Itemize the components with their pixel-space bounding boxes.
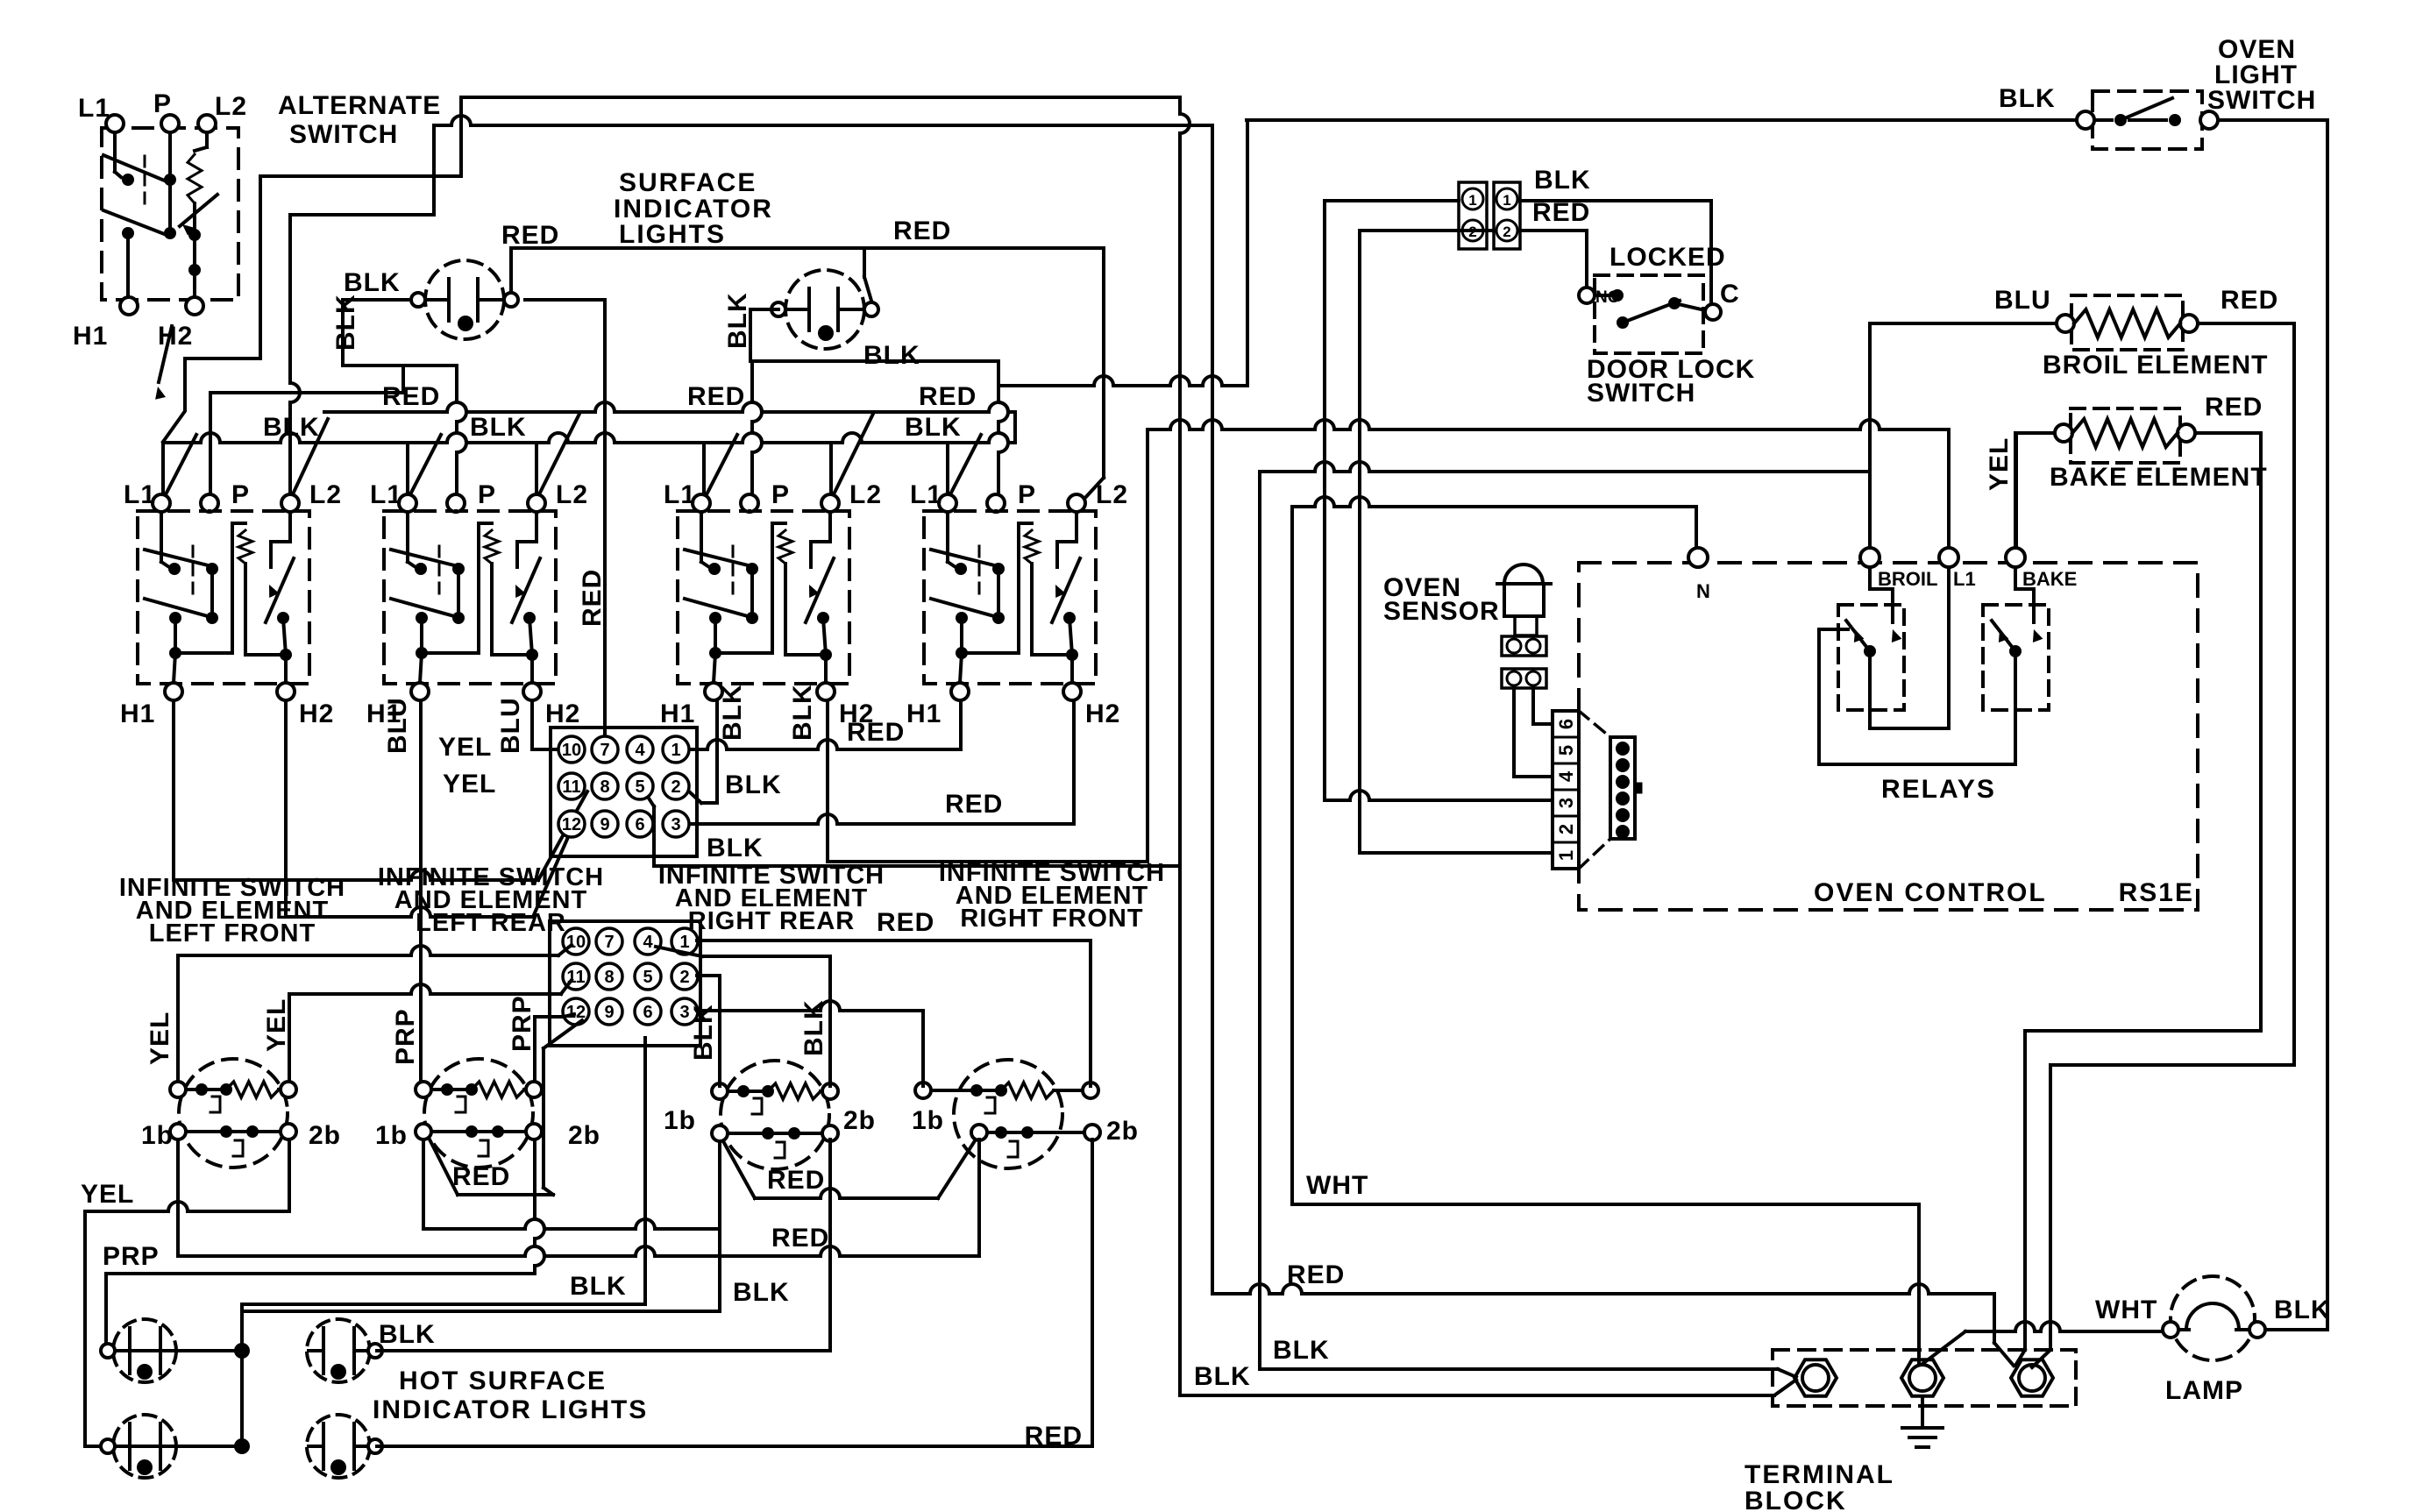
svg-text:OVEN CONTROL: OVEN CONTROL: [1814, 878, 2047, 907]
svg-text:RED: RED: [945, 790, 1003, 819]
svg-text:SWITCH: SWITCH: [1587, 379, 1695, 408]
svg-text:L2: L2: [849, 480, 882, 509]
svg-text:1: 1: [1468, 192, 1476, 209]
svg-text:L2: L2: [556, 480, 588, 509]
svg-text:2: 2: [1555, 824, 1577, 834]
svg-text:LAMP: LAMP: [2165, 1376, 2243, 1405]
svg-text:L1: L1: [664, 480, 696, 509]
svg-text:H2: H2: [299, 699, 334, 728]
svg-text:WHT: WHT: [2095, 1295, 2157, 1324]
svg-text:RIGHT FRONT: RIGHT FRONT: [960, 905, 1143, 933]
svg-text:3: 3: [671, 815, 680, 834]
svg-text:P: P: [153, 89, 172, 118]
svg-text:BLK: BLK: [1999, 84, 2056, 113]
svg-text:2b: 2b: [843, 1106, 876, 1135]
svg-text:PRP: PRP: [391, 1008, 420, 1065]
svg-text:12: 12: [562, 815, 581, 834]
svg-text:BLU: BLU: [1994, 286, 2051, 315]
svg-text:L1: L1: [1953, 568, 1976, 590]
svg-text:2b: 2b: [1106, 1117, 1139, 1146]
svg-text:YEL: YEL: [146, 1012, 174, 1065]
svg-text:HOT SURFACE: HOT SURFACE: [399, 1366, 607, 1395]
svg-text:BROIL: BROIL: [1878, 568, 1937, 590]
svg-text:RED: RED: [501, 221, 559, 250]
svg-text:BAKE ELEMENT: BAKE ELEMENT: [2050, 463, 2268, 492]
svg-text:9: 9: [600, 815, 609, 834]
svg-text:1b: 1b: [912, 1106, 944, 1135]
svg-text:5: 5: [643, 968, 652, 987]
svg-text:LIGHTS: LIGHTS: [619, 220, 726, 249]
svg-text:11: 11: [562, 777, 580, 797]
svg-text:RED: RED: [687, 382, 745, 411]
svg-text:RED: RED: [919, 382, 977, 411]
svg-text:5: 5: [1555, 745, 1577, 756]
svg-text:BAKE: BAKE: [2022, 568, 2077, 590]
svg-text:LEFT REAR: LEFT REAR: [416, 909, 566, 937]
svg-text:YEL: YEL: [443, 770, 496, 799]
svg-text:4: 4: [643, 933, 653, 952]
svg-text:3: 3: [1555, 798, 1577, 808]
svg-text:ALTERNATE: ALTERNATE: [278, 91, 441, 120]
svg-text:1: 1: [679, 933, 689, 952]
svg-text:RELAYS: RELAYS: [1881, 775, 1996, 804]
svg-text:TERMINAL: TERMINAL: [1744, 1460, 1894, 1489]
svg-text:PRP: PRP: [508, 995, 536, 1052]
svg-text:BLK: BLK: [331, 294, 360, 351]
svg-text:BLK: BLK: [263, 413, 320, 442]
svg-text:H1: H1: [906, 699, 942, 728]
svg-text:L2: L2: [309, 480, 342, 509]
svg-text:1b: 1b: [375, 1121, 408, 1150]
svg-text:6: 6: [643, 1003, 652, 1022]
svg-text:RED: RED: [1287, 1260, 1345, 1289]
svg-text:BLK: BLK: [718, 684, 747, 741]
svg-text:BLK: BLK: [863, 341, 920, 370]
svg-text:7: 7: [600, 741, 609, 760]
svg-text:4: 4: [1555, 770, 1577, 782]
svg-text:LEFT FRONT: LEFT FRONT: [149, 919, 316, 948]
svg-text:WHT: WHT: [1306, 1171, 1368, 1200]
svg-text:H1: H1: [660, 699, 695, 728]
svg-text:H1: H1: [73, 322, 108, 351]
svg-text:BLK: BLK: [723, 292, 752, 349]
svg-text:INDICATOR LIGHTS: INDICATOR LIGHTS: [373, 1395, 648, 1424]
svg-text:2: 2: [671, 777, 680, 797]
svg-text:RED: RED: [771, 1224, 829, 1253]
svg-text:RED: RED: [382, 382, 440, 411]
svg-text:1: 1: [671, 741, 680, 760]
svg-text:BLK: BLK: [788, 684, 817, 741]
svg-text:2b: 2b: [568, 1121, 600, 1150]
svg-text:8: 8: [600, 777, 609, 797]
svg-text:C: C: [1720, 280, 1740, 309]
svg-text:YEL: YEL: [1985, 437, 2014, 491]
svg-text:BLK: BLK: [570, 1272, 627, 1301]
svg-text:P: P: [478, 480, 496, 509]
svg-text:L1: L1: [910, 480, 942, 509]
svg-text:SENSOR: SENSOR: [1383, 597, 1500, 626]
svg-text:BLK: BLK: [379, 1320, 436, 1349]
svg-text:H2: H2: [158, 322, 193, 351]
svg-text:RED: RED: [893, 217, 951, 245]
svg-text:8: 8: [604, 968, 614, 987]
svg-text:PRP: PRP: [103, 1242, 160, 1271]
svg-text:N: N: [1696, 580, 1710, 602]
svg-text:RED: RED: [767, 1166, 825, 1195]
svg-text:2b: 2b: [309, 1121, 341, 1150]
svg-text:1b: 1b: [664, 1106, 696, 1135]
svg-text:7: 7: [604, 933, 614, 952]
svg-text:BLK: BLK: [707, 834, 764, 862]
svg-text:1: 1: [1555, 850, 1577, 861]
svg-text:5: 5: [635, 777, 644, 797]
svg-text:H1: H1: [120, 699, 155, 728]
svg-text:RS1E: RS1E: [2119, 878, 2194, 907]
svg-text:RED: RED: [2205, 393, 2263, 422]
svg-text:1b: 1b: [141, 1121, 174, 1150]
svg-text:YEL: YEL: [262, 998, 291, 1052]
svg-text:BLK: BLK: [2274, 1295, 2331, 1324]
svg-text:BLK: BLK: [733, 1278, 790, 1307]
svg-text:RED: RED: [1025, 1422, 1083, 1451]
svg-text:YEL: YEL: [81, 1180, 134, 1209]
svg-text:H2: H2: [545, 699, 580, 728]
svg-text:6: 6: [635, 815, 644, 834]
svg-text:L1: L1: [124, 480, 156, 509]
svg-text:P: P: [771, 480, 790, 509]
svg-text:BROIL ELEMENT: BROIL ELEMENT: [2043, 351, 2268, 380]
svg-text:BLK: BLK: [1194, 1362, 1251, 1391]
svg-text:2: 2: [1503, 224, 1510, 240]
svg-text:L1: L1: [370, 480, 402, 509]
svg-text:SURFACE: SURFACE: [619, 168, 757, 197]
svg-text:LOCKED: LOCKED: [1609, 243, 1726, 272]
svg-text:BLK: BLK: [470, 413, 527, 442]
svg-text:RED: RED: [578, 569, 607, 627]
svg-text:4: 4: [635, 741, 645, 760]
svg-text:P: P: [1018, 480, 1036, 509]
svg-text:BLK: BLK: [1534, 166, 1591, 195]
svg-text:BLK: BLK: [905, 413, 962, 442]
svg-text:SWITCH: SWITCH: [2207, 86, 2316, 115]
svg-text:BLOCK: BLOCK: [1744, 1487, 1847, 1512]
svg-text:SWITCH: SWITCH: [289, 120, 398, 149]
svg-text:9: 9: [604, 1003, 614, 1022]
svg-text:YEL: YEL: [438, 733, 492, 762]
svg-text:10: 10: [562, 741, 581, 760]
svg-text:RED: RED: [452, 1162, 510, 1191]
svg-text:L1: L1: [78, 94, 110, 123]
svg-text:L2: L2: [215, 92, 247, 121]
svg-text:RED: RED: [2221, 286, 2278, 315]
svg-text:BLU: BLU: [496, 697, 525, 754]
svg-text:RED: RED: [877, 908, 934, 937]
svg-text:BLK: BLK: [799, 999, 828, 1056]
svg-text:L2: L2: [1096, 480, 1128, 509]
svg-text:2: 2: [679, 968, 689, 987]
svg-text:BLU: BLU: [383, 697, 412, 754]
svg-text:H2: H2: [1085, 699, 1120, 728]
svg-text:RIGHT REAR: RIGHT REAR: [688, 907, 855, 935]
svg-text:BLK: BLK: [725, 770, 782, 799]
svg-text:RED: RED: [847, 718, 905, 747]
svg-text:P: P: [231, 480, 250, 509]
svg-text:BLK: BLK: [1273, 1336, 1330, 1365]
svg-text:3: 3: [679, 1003, 689, 1022]
svg-text:BLK: BLK: [689, 1004, 718, 1061]
svg-text:1: 1: [1503, 192, 1510, 209]
svg-text:6: 6: [1555, 719, 1577, 729]
svg-text:BLK: BLK: [344, 268, 401, 297]
